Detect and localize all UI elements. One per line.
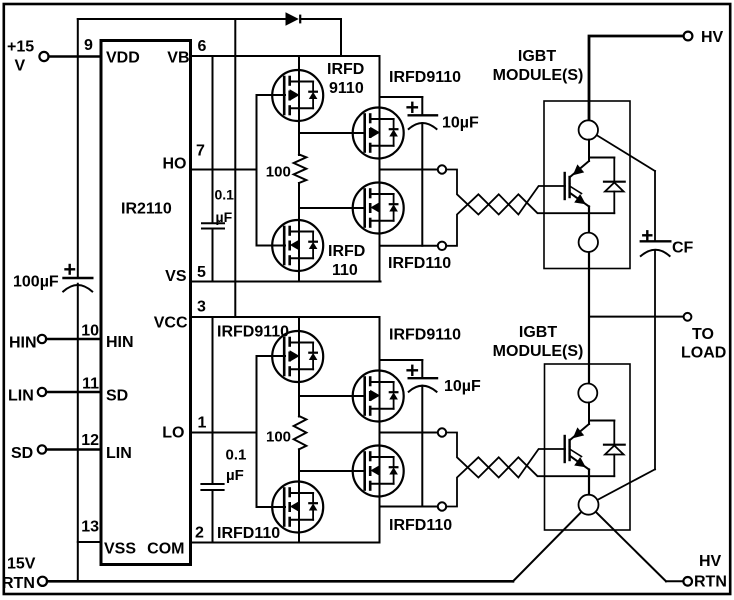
svg-text:IRFD9110: IRFD9110 bbox=[217, 324, 289, 341]
wire VCC rail (pin 3) bbox=[191, 316, 380, 318]
IGBT module (bottom) box bbox=[545, 364, 631, 530]
svg-text:RTN: RTN bbox=[2, 575, 35, 592]
wire low decoupling cap branch VCC-COM bbox=[212, 317, 214, 483]
node module terminal T1 bbox=[579, 120, 598, 139]
wire collector to diode cathode bbox=[589, 157, 614, 159]
svg-text:15V: 15V bbox=[7, 556, 36, 573]
svg-text:0.1: 0.1 bbox=[226, 447, 247, 464]
svg-text:HV: HV bbox=[701, 29, 724, 46]
svg-text:VB: VB bbox=[167, 50, 189, 67]
svg-text:IRFD110: IRFD110 bbox=[217, 525, 280, 542]
node gate output terminal (low) bbox=[438, 428, 446, 436]
wire Q5 drain to resistor / node C bbox=[298, 382, 300, 417]
wire output to gate terminal bbox=[380, 169, 438, 171]
wire Q1 source to VB rail bbox=[298, 56, 300, 71]
wire Q7 source to VCC rail bbox=[379, 317, 381, 371]
transistor IGBT1 bbox=[565, 161, 589, 207]
wire HIN to pin 10 bbox=[46, 338, 101, 341]
svg-text:10: 10 bbox=[81, 323, 99, 340]
node return output terminal (low) bbox=[438, 502, 446, 510]
wire twisted pair upper (low side) bbox=[446, 433, 565, 478]
wire Q5 gate lead bbox=[257, 355, 286, 357]
wire collector to diode cathode (bottom) bbox=[589, 420, 614, 422]
node A wire to Q3 gate bbox=[299, 132, 365, 134]
svg-text:VS: VS bbox=[165, 268, 187, 285]
wire Q4 source to VS rail bbox=[379, 246, 381, 282]
node LIN terminal bbox=[38, 388, 46, 396]
wire Q3 source to VB rail bbox=[379, 56, 381, 108]
wire twisted pair upper (high side) bbox=[446, 170, 565, 215]
wire SD to pin 12 bbox=[46, 448, 101, 451]
transistor Q6 IRFD110 bbox=[272, 482, 323, 533]
wire bootstrap cap branch VB-VS bbox=[212, 56, 214, 222]
svg-text:3: 3 bbox=[197, 299, 206, 316]
svg-text:IRFD: IRFD bbox=[327, 61, 364, 78]
wire Q2 gate lead bbox=[257, 245, 286, 247]
node D wire to Q8 gate bbox=[299, 470, 365, 472]
wire gate column (HO to Q1 Q2 gates) bbox=[256, 95, 258, 246]
svg-text:MODULE(S): MODULE(S) bbox=[493, 343, 584, 360]
wire 15V RTN bottom rail bbox=[47, 580, 513, 583]
node +15V terminal bbox=[39, 52, 48, 61]
transistor Q1 IRFD9110 bbox=[272, 70, 323, 121]
capacitor C5 0.1uF low side bbox=[201, 484, 223, 490]
svg-text:7: 7 bbox=[196, 143, 205, 160]
svg-text:IGBT: IGBT bbox=[519, 324, 557, 341]
svg-text:IR2110: IR2110 bbox=[121, 201, 172, 218]
svg-text:COM: COM bbox=[147, 541, 184, 558]
svg-text:LOAD: LOAD bbox=[681, 345, 726, 362]
svg-text:2: 2 bbox=[195, 525, 204, 542]
svg-text:HV: HV bbox=[699, 553, 722, 570]
wire twisted pair lower (high side) bbox=[446, 194, 614, 246]
wire T4 to 15V RTN rail diagonal bbox=[513, 505, 589, 582]
svg-text:V: V bbox=[15, 58, 26, 75]
wire Q1 gate lead bbox=[257, 94, 286, 96]
wire top module collector terminal to CF bbox=[588, 130, 655, 171]
svg-text:LIN: LIN bbox=[106, 445, 132, 462]
wire Q5 source to VCC rail bbox=[298, 317, 300, 331]
wire VSS pin 13 stub bbox=[78, 541, 101, 543]
transistor Q4 IRFD110 bbox=[353, 183, 404, 234]
node gate output terminal (high) bbox=[438, 165, 446, 173]
wire VB rail (pin 6) bbox=[191, 55, 380, 57]
diode FD2 freewheel bbox=[604, 421, 625, 477]
svg-text:+15: +15 bbox=[7, 39, 34, 56]
diode FD1 freewheel bbox=[604, 158, 625, 214]
resistor R2 100 bbox=[294, 416, 307, 449]
node module terminal T4 bbox=[579, 495, 599, 515]
capacitor C1 100uF bbox=[63, 265, 92, 292]
wire Q3 drain to Q4 drain (output node) bbox=[379, 158, 381, 183]
transistor Q5 IRFD9110 bbox=[272, 331, 323, 382]
svg-text:IRFD9110: IRFD9110 bbox=[389, 327, 461, 344]
resistor R1 100 bbox=[294, 154, 307, 183]
svg-text:LO: LO bbox=[162, 425, 184, 442]
wire Q8 source rail low bbox=[379, 496, 381, 507]
svg-text:110: 110 bbox=[332, 262, 358, 279]
wire +15V to VDD pin 9 bbox=[49, 55, 101, 58]
node module terminal T2 bbox=[579, 233, 598, 252]
svg-text:0.1: 0.1 bbox=[215, 187, 235, 203]
svg-text:HO: HO bbox=[163, 156, 187, 173]
wire resistor to Q2 drain / node B bbox=[298, 183, 300, 221]
wire T4 to CF diagonal bbox=[589, 469, 656, 504]
svg-text:5: 5 bbox=[197, 264, 206, 281]
svg-text:9: 9 bbox=[84, 37, 93, 54]
transistor Q8 IRFD110 bbox=[353, 446, 404, 497]
node HIN terminal bbox=[38, 335, 46, 343]
wire VDD top feed to bootstrap diode bbox=[78, 18, 286, 20]
capacitor C3 10uF bbox=[380, 97, 438, 246]
svg-text:LIN: LIN bbox=[8, 388, 34, 405]
svg-text:IRFD: IRFD bbox=[328, 243, 365, 260]
node 15V RTN terminal bbox=[38, 577, 47, 586]
node module terminal T3 bbox=[578, 384, 597, 403]
svg-text:10µF: 10µF bbox=[444, 378, 481, 395]
svg-text:IRFD110: IRFD110 bbox=[389, 517, 452, 534]
svg-text:1: 1 bbox=[198, 415, 207, 432]
svg-text:µF: µF bbox=[226, 467, 244, 484]
node HV RTN terminal bbox=[666, 580, 683, 582]
svg-text:RTN: RTN bbox=[694, 574, 727, 591]
svg-text:VCC: VCC bbox=[154, 315, 188, 332]
wire VS rail (pin 5) bbox=[191, 281, 381, 283]
wire HO pin 7 bbox=[191, 169, 257, 171]
svg-text:9110: 9110 bbox=[329, 80, 364, 97]
svg-text:SD: SD bbox=[106, 388, 128, 405]
wire Q7 drain to Q8 drain (output node low) bbox=[379, 421, 381, 446]
svg-text:VDD: VDD bbox=[106, 50, 140, 67]
transistor Q7 IRFD9110 bbox=[353, 371, 404, 422]
transistor Q2 IRFD110 bbox=[272, 220, 323, 271]
wire gate column low (LO to Q5 Q6 gates) bbox=[256, 356, 258, 507]
svg-text:12: 12 bbox=[81, 432, 99, 449]
svg-text:100: 100 bbox=[266, 164, 291, 181]
node C wire to Q7 gate bbox=[299, 395, 365, 397]
svg-text:TO: TO bbox=[692, 326, 714, 343]
wire HV feed to top module bbox=[589, 36, 684, 120]
wire collector down (bottom module) bbox=[588, 403, 590, 425]
wire twisted pair lower (low side) bbox=[446, 457, 614, 506]
op-amp U1 IR2110 driver IC body bbox=[101, 41, 191, 565]
svg-text:13: 13 bbox=[81, 519, 99, 536]
capacitor C4 10uF low bbox=[380, 360, 438, 507]
svg-text:6: 6 bbox=[198, 38, 207, 55]
wire LO pin 1 bbox=[191, 432, 257, 434]
svg-text:IRFD110: IRFD110 bbox=[388, 255, 451, 272]
wire collector down bbox=[588, 140, 590, 161]
svg-text:100: 100 bbox=[266, 429, 291, 446]
svg-text:MODULE(S): MODULE(S) bbox=[493, 67, 584, 84]
capacitor C2 0.1uF bootstrap bbox=[202, 223, 224, 228]
svg-text:11: 11 bbox=[82, 376, 99, 393]
wire COM rail (pin 2) bbox=[191, 542, 380, 544]
node B wire to Q4 gate bbox=[299, 207, 365, 209]
wire VDD rail vertical (left) bbox=[77, 19, 79, 277]
wire emitter down to T4 bbox=[588, 470, 590, 496]
svg-text:VSS: VSS bbox=[104, 541, 136, 558]
wire Q6 source to COM rail bbox=[298, 532, 300, 543]
svg-text:CF: CF bbox=[672, 240, 694, 257]
svg-text:SD: SD bbox=[11, 445, 33, 462]
svg-text:µF: µF bbox=[216, 209, 233, 225]
svg-text:HIN: HIN bbox=[106, 334, 134, 351]
wire Q1 drain to resistor / node A bbox=[298, 121, 300, 156]
wire Q6 gate lead bbox=[257, 506, 286, 508]
svg-text:100µF: 100µF bbox=[13, 274, 59, 291]
wire Q2 source to VS rail bbox=[298, 271, 300, 282]
svg-text:HIN: HIN bbox=[9, 335, 37, 352]
wire Q8 source to COM rail bbox=[379, 507, 381, 543]
wire emitter down through T2 to load node bbox=[588, 207, 590, 384]
svg-text:10µF: 10µF bbox=[442, 115, 479, 132]
wire output low to gate terminal bbox=[380, 432, 438, 434]
svg-text:IRFD9110: IRFD9110 bbox=[389, 69, 461, 86]
wire diode cathode down to VB rail bbox=[340, 19, 342, 56]
IGBT module (top) box bbox=[544, 101, 630, 269]
wire Q4 source rail bbox=[379, 233, 381, 246]
node SD terminal bbox=[38, 445, 46, 453]
wire LIN to pin 11 bbox=[46, 391, 101, 394]
node TO LOAD terminal bbox=[589, 316, 683, 318]
wire resistor to Q6 drain / node D bbox=[298, 449, 300, 481]
wire VDD to VCC feed bbox=[234, 19, 236, 317]
capacitor CF bbox=[641, 171, 671, 469]
transistor IGBT2 bbox=[565, 424, 589, 470]
wire T4 to HV RTN diagonal bbox=[589, 505, 667, 582]
diode D1 bootstrap bbox=[286, 12, 301, 25]
node return output terminal (high) bbox=[438, 242, 446, 250]
svg-text:IGBT: IGBT bbox=[518, 48, 556, 65]
transistor Q3 IRFD9110 bbox=[353, 108, 404, 159]
